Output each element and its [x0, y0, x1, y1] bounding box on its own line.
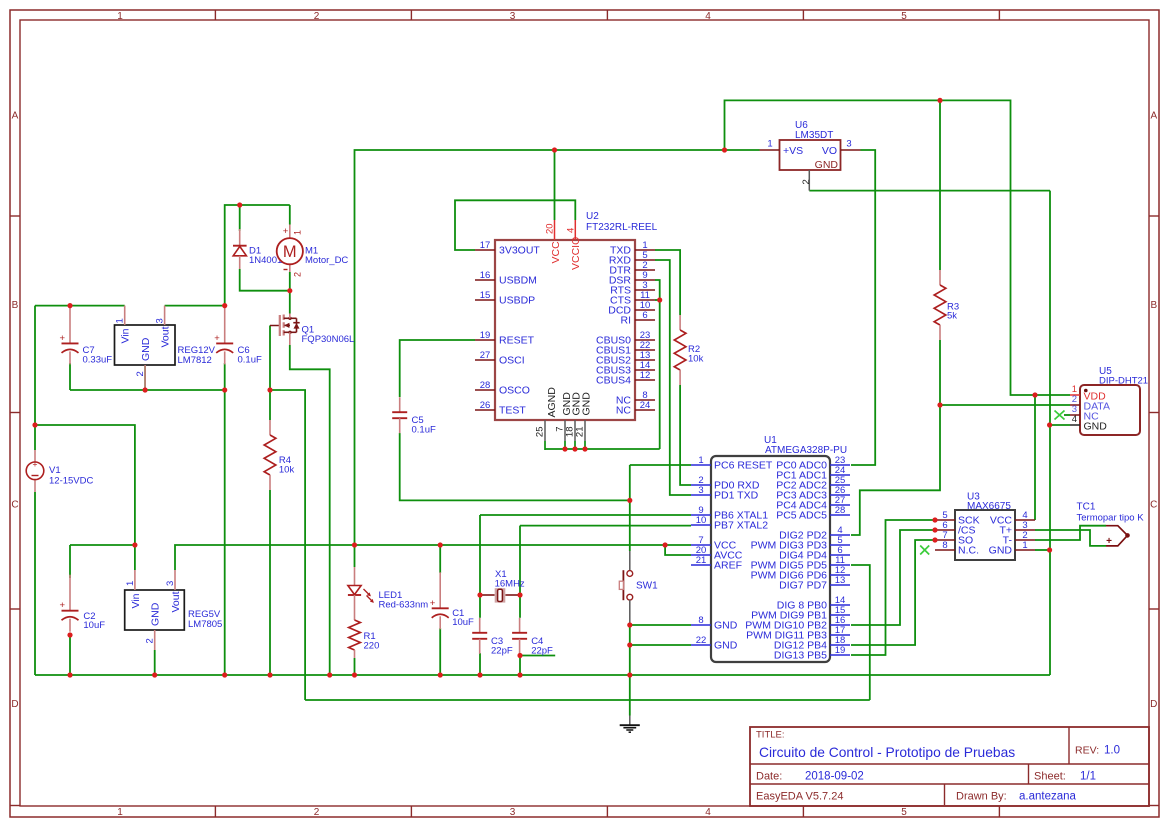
U1 pin 3 (PD1 TXD) — [691, 494, 711, 496]
svg-text:V1: V1 — [49, 465, 61, 476]
REG5V pin 1 (Vin) — [134, 570, 136, 590]
U1 pin 24 (PC1 ADC1) — [830, 474, 850, 476]
svg-text:PD1 TXD: PD1 TXD — [714, 490, 759, 502]
junction — [67, 672, 72, 677]
svg-text:SW1: SW1 — [636, 581, 658, 592]
wire R2 to U1 RXD — [680, 385, 691, 485]
junction — [627, 498, 632, 503]
wire U2 DSR down — [655, 280, 660, 449]
svg-text:GND: GND — [580, 392, 592, 416]
capacitor C4 (22pF) — [519, 618, 521, 633]
svg-text:1: 1 — [293, 230, 303, 235]
svg-text:RESET: RESET — [499, 335, 535, 347]
wire U5 NC short lead — [1064, 414, 1070, 416]
svg-text:19: 19 — [480, 330, 491, 341]
regulator REG5V LM7805 — [125, 590, 185, 630]
wire X1 right vertical — [519, 526, 521, 618]
junction — [67, 632, 72, 637]
U3 pin 2 (T-) — [1015, 539, 1035, 541]
U2 pin 15 (USBDP) — [475, 299, 495, 301]
wire stub from C4 — [520, 655, 555, 657]
svg-text:Vin: Vin — [120, 328, 132, 343]
resistor R3 5k — [939, 270, 941, 285]
U1 pin 15 (PWM DIG9 PB1) — [830, 614, 850, 616]
wire to U1 PD5 — [851, 565, 870, 700]
wire U2 ground row — [545, 448, 660, 450]
U1 pin 9 (PB6 XTAL1) — [691, 514, 711, 516]
capacitor C2 (10uF) polarized — [69, 575, 71, 611]
junction — [222, 672, 227, 677]
wire R3 top — [939, 100, 941, 270]
svg-text:TEST: TEST — [499, 405, 526, 417]
U2 pin 23 (CBUS0) — [635, 339, 655, 341]
U1 pin 4 (DIG2 PD2) — [830, 534, 850, 536]
wire C5 to reset node — [400, 433, 630, 500]
svg-text:24: 24 — [640, 400, 651, 411]
wire M1 + stub — [289, 205, 291, 225]
svg-text:5: 5 — [901, 11, 907, 22]
wire C2 bottom to GND bus — [69, 635, 71, 675]
svg-text:2: 2 — [314, 807, 320, 818]
wire 12V gnd side — [70, 389, 225, 391]
wire T- to TC1 top leg — [1035, 526, 1106, 540]
wire Vin5 stub — [134, 545, 136, 570]
wire U6 GND to right vertical — [809, 190, 1050, 192]
junction — [552, 147, 557, 152]
svg-text:B: B — [1150, 300, 1157, 311]
IC U5 DIP-DHT21 — [1080, 385, 1140, 435]
wire U3 SCK to U1 PB5 — [851, 520, 935, 655]
capacitor C3 (22pF) — [479, 618, 481, 633]
svg-text:+: + — [430, 598, 436, 609]
U1 pin 13 (DIG7 PD7) — [830, 584, 850, 586]
resistor R4 zigzag — [264, 435, 276, 475]
capacitor C6 (0.1uF) polarized — [224, 307, 226, 343]
U2 pin 1 (TXD) — [635, 249, 655, 251]
wire U2 RXD to U1 TXD — [655, 260, 691, 495]
wire gate net to bottom run — [270, 390, 305, 700]
junction — [517, 653, 522, 658]
U1 pin 16 (PWM DIG10 PB2) — [830, 624, 850, 626]
svg-text:3: 3 — [510, 807, 516, 818]
svg-text:+: + — [60, 600, 66, 611]
svg-text:LM7812: LM7812 — [178, 355, 212, 366]
U6 pin 2 (GND) — [808, 170, 810, 191]
svg-text:4: 4 — [705, 11, 711, 22]
wire R3 bottom to U1 DIG2 — [851, 340, 940, 535]
svg-text:D: D — [1150, 699, 1157, 710]
U1 pin 8 (GND) — [691, 624, 711, 626]
junction — [582, 446, 587, 451]
U1 pin 25 (PC2 ADC2) — [830, 484, 850, 486]
wire U2 VCC drop — [554, 150, 556, 220]
wire V1+ to REG12V Vin — [35, 305, 125, 307]
junction — [1032, 392, 1037, 397]
svg-text:Sheet:: Sheet: — [1034, 771, 1066, 783]
svg-text:20: 20 — [545, 223, 556, 234]
svg-text:GND: GND — [714, 640, 738, 652]
wire to U1 GND pin22 — [630, 644, 691, 646]
U1 pin 20 (AVCC) — [691, 554, 711, 556]
svg-text:2: 2 — [801, 179, 812, 184]
junction — [517, 672, 522, 677]
U5 pin 2 (DATA) — [1070, 404, 1080, 406]
TC1 tip — [1125, 533, 1130, 538]
junction — [517, 592, 522, 597]
junction — [327, 672, 332, 677]
REG12V pin 1 (Vin) — [124, 306, 126, 325]
U5 pin1 dot — [1084, 389, 1088, 393]
wire C2 top to Vin node — [70, 544, 135, 546]
svg-text:3: 3 — [165, 581, 176, 586]
wire REG12V GND stub-down — [144, 365, 146, 390]
U1 pin 23 (PC0 ADC0) — [830, 464, 850, 466]
svg-text:A: A — [1150, 111, 1157, 122]
thermocouple TC1 Termopar tipo K — [1106, 526, 1128, 546]
wire U6 VO to U1 ADC0 — [851, 150, 875, 465]
svg-text:2018-09-02: 2018-09-02 — [805, 771, 864, 783]
U1 pin 19 (DIG13 PB5) — [830, 654, 850, 656]
svg-text:+: + — [1106, 536, 1112, 547]
svg-text:21: 21 — [696, 555, 707, 566]
wire U5 DATA — [940, 404, 1070, 406]
svg-text:Termopar tipo K: Termopar tipo K — [1077, 513, 1145, 524]
U3 pin 5 (SCK) — [935, 519, 955, 521]
svg-text:17: 17 — [480, 240, 491, 251]
svg-text:13: 13 — [835, 575, 846, 586]
svg-text:220: 220 — [364, 641, 380, 652]
svg-text:PC6 RESET: PC6 RESET — [714, 460, 773, 472]
junction — [67, 303, 72, 308]
U2 pin 5 (RXD) — [635, 259, 655, 261]
svg-text:1: 1 — [767, 139, 772, 150]
wire M1 - stub — [289, 272, 291, 291]
junction — [932, 527, 937, 532]
U2 pin 24 (NC) — [635, 409, 655, 411]
wire C7 bottom — [69, 363, 71, 390]
svg-text:19: 19 — [835, 645, 846, 656]
U1 pin 1 (PC6 RESET) — [691, 464, 711, 466]
U2 pin 18 (GND) — [574, 420, 576, 441]
junction — [267, 672, 272, 677]
svg-text:GND: GND — [140, 337, 152, 361]
U5 pin 1 (VDD) — [1070, 394, 1080, 396]
U1 pin 26 (PC3 ADC3) — [830, 494, 850, 496]
ruler tick marks — [214, 10, 216, 20]
resistor R2 10k — [679, 315, 681, 330]
svg-text:GND: GND — [714, 620, 738, 632]
IC U2 FT232RL-REEL — [495, 240, 635, 420]
junction — [1047, 422, 1052, 427]
svg-text:27: 27 — [480, 350, 491, 361]
wire U3 SO to U1 PB4 — [851, 540, 935, 645]
svg-text:NC: NC — [616, 405, 632, 417]
junction — [143, 387, 148, 392]
svg-text:Date:: Date: — [756, 771, 782, 783]
U3 pin 8 no-connect flag — [920, 546, 929, 555]
wire M1- to Q1 drain — [289, 291, 291, 314]
svg-text:VO: VO — [822, 145, 837, 157]
wire to U1 GND pin8 — [630, 624, 691, 626]
svg-text:LM35DT: LM35DT — [795, 130, 833, 141]
svg-text:RI: RI — [621, 315, 632, 327]
wire 12V gnd to bus — [224, 390, 226, 675]
U1 pin 22 (GND) — [691, 644, 711, 646]
svg-text:A: A — [12, 111, 19, 122]
wire D1 top stub — [239, 205, 241, 231]
U1 pin 17 (PWM DIG11 PB3) — [830, 634, 850, 636]
U1 pin 6 (DIG4 PD4) — [830, 554, 850, 556]
svg-text:+: + — [33, 459, 38, 469]
wire gate net horizontal — [305, 699, 870, 701]
wire GND right vertical — [1049, 191, 1051, 675]
svg-text:1: 1 — [698, 455, 703, 466]
wire T+ to TC1 bottom leg — [1035, 530, 1106, 546]
svg-text:1: 1 — [117, 11, 123, 22]
wire D1 bottom to M1- node — [240, 269, 290, 291]
svg-text:4: 4 — [705, 807, 711, 818]
Q1 drain join — [288, 317, 291, 320]
svg-text:10uF: 10uF — [452, 617, 474, 628]
U1 pin 5 (PWM DIG3 PD3) — [830, 544, 850, 546]
IC U6 LM35DT — [780, 140, 841, 170]
wire C6 bottom — [224, 363, 226, 390]
wire REG12V Vout to C6 — [165, 305, 225, 307]
svg-text:0.33uF: 0.33uF — [83, 355, 113, 366]
U2 pin 27 (OSCI) — [475, 359, 495, 361]
REG12V pin 3 (Vout) — [164, 306, 166, 325]
wire GND bottom bus — [35, 674, 1050, 676]
U2 pin 8 (NC) — [635, 399, 655, 401]
U1 pin 2 (PD0 RXD) — [691, 484, 711, 486]
junction — [932, 537, 937, 542]
LED LED1 Red-633nm — [354, 567, 356, 586]
U6 pin 1 (+VS) — [760, 149, 780, 151]
svg-text:1: 1 — [115, 318, 126, 323]
switch SW1 pushbutton — [629, 551, 631, 571]
svg-text:3V3OUT: 3V3OUT — [499, 245, 540, 257]
wire R4 bottom to GND — [269, 490, 271, 675]
svg-text:8: 8 — [698, 615, 703, 626]
svg-text:AGND: AGND — [546, 387, 558, 418]
U1 pin 7 (VCC) — [691, 544, 711, 546]
wire C1 bottom — [439, 628, 441, 675]
junction — [932, 517, 937, 522]
svg-text:Circuito de Control - Prototip: Circuito de Control - Prototipo de Prueb… — [759, 745, 1015, 760]
junction — [572, 446, 577, 451]
junction — [937, 98, 942, 103]
svg-text:M: M — [283, 243, 297, 261]
svg-text:2: 2 — [292, 272, 302, 277]
svg-text:4: 4 — [1072, 414, 1077, 425]
svg-text:2: 2 — [145, 638, 156, 643]
U2 pin 12 (CBUS4) — [635, 379, 655, 381]
svg-text:OSCI: OSCI — [499, 355, 525, 367]
wire +5V up to U6 +VS — [355, 150, 760, 545]
U6 pin 3 (VO) — [841, 149, 861, 151]
IC U1 ATMEGA328P-PU — [711, 456, 830, 662]
U2 pin 16 (USBDM) — [475, 279, 495, 281]
U2 pin 22 (CBUS1) — [635, 349, 655, 351]
svg-text:12: 12 — [640, 370, 651, 381]
svg-text:25: 25 — [535, 427, 546, 438]
wire V1 top vertical — [34, 306, 36, 450]
resistor R2 zigzag — [674, 330, 686, 370]
svg-text:10: 10 — [696, 515, 707, 526]
U3 pin 6 (/CS) — [935, 529, 955, 531]
svg-text:PB7 XTAL2: PB7 XTAL2 — [714, 520, 768, 532]
wire 12V branch to REG5V Vin — [35, 425, 135, 545]
U2 pin 9 (DSR) — [635, 279, 655, 281]
svg-text:28: 28 — [480, 380, 491, 391]
svg-text:5: 5 — [901, 807, 907, 818]
capacitor C7 (0.33uF) polarized — [69, 307, 71, 343]
svg-text:GND: GND — [150, 602, 162, 626]
junction — [1047, 547, 1052, 552]
diode D1 1N4001 — [239, 229, 241, 246]
svg-text:1/1: 1/1 — [1080, 771, 1096, 783]
svg-text:16MHz: 16MHz — [495, 578, 525, 589]
svg-text:DIG13 PB5: DIG13 PB5 — [774, 650, 827, 662]
svg-text:GND: GND — [989, 545, 1013, 557]
svg-text:12-15VDC: 12-15VDC — [49, 476, 93, 487]
resistor R4 10k — [269, 420, 271, 435]
junction — [627, 672, 632, 677]
U2 pin 2 (DTR) — [635, 269, 655, 271]
U1 pin 12 (PWM DIG6 PD6) — [830, 574, 850, 576]
wire XTAL2 row — [520, 525, 691, 527]
svg-text:B: B — [12, 300, 19, 311]
wire U2 TXD to R2 — [655, 250, 680, 315]
junction — [657, 297, 662, 302]
junction — [477, 672, 482, 677]
svg-text:USBDP: USBDP — [499, 295, 535, 307]
svg-text:26: 26 — [480, 400, 491, 411]
svg-text:5k: 5k — [947, 311, 957, 322]
svg-text:16: 16 — [480, 270, 491, 281]
U1 pin 28 (PC5 ADC5) — [830, 514, 850, 516]
svg-text:TC1: TC1 — [1077, 502, 1096, 513]
U2 pin 28 (OSCO) — [475, 389, 495, 391]
svg-text:FT232RL-REEL: FT232RL-REEL — [586, 222, 658, 233]
svg-text:4: 4 — [565, 228, 576, 233]
svg-text:0.1uF: 0.1uF — [238, 355, 262, 366]
wire 12V up to D1/M1 top — [225, 205, 290, 306]
svg-text:Vout: Vout — [160, 326, 172, 347]
capacitor C5 (0.1uF) — [399, 397, 401, 412]
svg-text:CBUS4: CBUS4 — [596, 375, 631, 387]
junction — [477, 592, 482, 597]
svg-text:1: 1 — [125, 581, 136, 586]
svg-text:DIG7 PD7: DIG7 PD7 — [779, 580, 827, 592]
junction — [627, 622, 632, 627]
wire C2 top stub — [69, 545, 71, 578]
svg-text:USBDM: USBDM — [499, 275, 537, 287]
motor M1 Motor_DC — [289, 225, 291, 239]
svg-text:0.1uF: 0.1uF — [412, 424, 436, 435]
U1 pin 27 (PC4 ADC4) — [830, 504, 850, 506]
wire R1 bottom — [354, 658, 356, 675]
svg-text:Vout: Vout — [170, 591, 182, 612]
U2 pin 4 (VCCIO) — [574, 220, 576, 240]
U2 pin 25 (AGND) — [544, 420, 546, 441]
U1 pin 21 (AREF) — [691, 564, 711, 566]
svg-text:GND: GND — [1084, 420, 1108, 432]
REG5V pin 3 (Vout) — [174, 570, 176, 590]
svg-text:AREF: AREF — [714, 560, 742, 572]
wire LED1 top — [354, 545, 356, 567]
wire X1 left vertical — [479, 515, 481, 618]
junction — [132, 542, 137, 547]
wire Q1 source to GND — [290, 345, 330, 675]
svg-text:REV:: REV: — [1075, 745, 1099, 757]
junction — [222, 303, 227, 308]
U2 pin 6 (RI) — [635, 319, 655, 321]
wire U2 CTS join — [655, 299, 660, 301]
junction — [937, 402, 942, 407]
svg-text:LM7805: LM7805 — [188, 619, 222, 630]
svg-text:+VS: +VS — [783, 145, 803, 157]
wire U5 GND to vertical — [1050, 424, 1070, 426]
junction — [287, 288, 292, 293]
U5 pin 3 no-connect flag — [1055, 411, 1065, 420]
U2 pin 3 (RTS) — [635, 289, 655, 291]
svg-text:8: 8 — [942, 540, 947, 551]
junction — [722, 147, 727, 152]
wire C4 bottom — [519, 653, 521, 675]
wire reset to U1 pin1 — [630, 464, 691, 466]
U2 pin 17 (3V3OUT) — [475, 249, 495, 251]
svg-text:6: 6 — [642, 310, 647, 321]
svg-text:Motor_DC: Motor_DC — [305, 255, 348, 266]
svg-text:1: 1 — [117, 807, 123, 818]
svg-text:Drawn By:: Drawn By: — [956, 791, 1007, 803]
U5 pin 4 (GND) — [1070, 424, 1080, 426]
svg-text:22pF: 22pF — [531, 645, 553, 656]
junction — [267, 387, 272, 392]
svg-text:FQP30N06L: FQP30N06L — [302, 334, 355, 345]
wire V1- down — [34, 492, 36, 675]
U2 pin 26 (TEST) — [475, 409, 495, 411]
resistor R1 220 — [354, 608, 356, 620]
svg-text:21: 21 — [575, 427, 586, 438]
ground symbol — [629, 716, 631, 726]
U3 pin 8 (N.C.) — [935, 549, 955, 551]
U2 pin 7 (GND) — [564, 420, 566, 441]
svg-text:TITLE:: TITLE: — [756, 730, 785, 741]
wire C1 top — [439, 545, 441, 573]
svg-text:+: + — [283, 226, 289, 237]
wire Q1 gate down — [269, 326, 271, 391]
junction — [438, 542, 443, 547]
svg-text:Red-633nm: Red-633nm — [379, 600, 429, 611]
junction — [627, 642, 632, 647]
svg-text:C: C — [1150, 500, 1157, 511]
svg-text:EasyEDA V5.7.24: EasyEDA V5.7.24 — [756, 791, 843, 803]
svg-text:3: 3 — [698, 485, 703, 496]
IC U3 MAX6675 — [955, 510, 1015, 560]
U5 pin 3 (NC) — [1070, 414, 1080, 416]
svg-text:D: D — [11, 699, 18, 710]
U3 pin 7 (SO) — [935, 539, 955, 541]
capacitor C1 (10uF) polarized — [439, 572, 441, 608]
svg-text:2: 2 — [314, 11, 320, 22]
U2 pin 20 (VCC) — [554, 220, 556, 240]
junction — [562, 446, 567, 451]
svg-text:C: C — [11, 500, 18, 511]
resistor R3 zigzag — [934, 285, 946, 325]
junction — [663, 542, 668, 547]
